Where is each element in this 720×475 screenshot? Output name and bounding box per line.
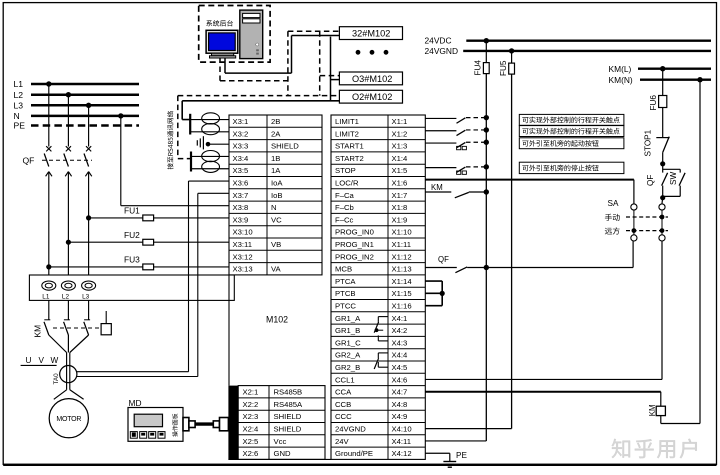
svg-text:SA: SA [608, 199, 619, 208]
svg-text:W: W [51, 356, 59, 365]
svg-text:GR1_A: GR1_A [335, 314, 361, 323]
selector switch SA [605, 199, 668, 241]
svg-text:1B: 1B [271, 154, 280, 163]
connector plug (MD side) [183, 418, 195, 431]
wire phase 2 CT to KM [67, 300, 69, 319]
motor M [49, 399, 88, 438]
svg-text:KM: KM [33, 325, 43, 338]
svg-text:X2:3: X2:3 [243, 412, 259, 421]
svg-text:SHIELD: SHIELD [274, 412, 302, 421]
dashed network wire to 32#M102 [288, 31, 340, 95]
24VGND vertical bus [511, 74, 513, 429]
contactor KM pole 2 [64, 320, 70, 335]
node L2 tap [66, 92, 71, 97]
rail 24VGND [425, 46, 712, 56]
svg-text:L3: L3 [82, 294, 90, 301]
svg-text:CCB: CCB [335, 400, 351, 409]
RS485 cable [195, 422, 213, 425]
svg-text:GND: GND [274, 449, 292, 458]
svg-text:STOP: STOP [335, 166, 356, 175]
svg-text:LIMIT2: LIMIT2 [335, 129, 359, 138]
svg-text:KM: KM [648, 404, 657, 416]
svg-text:X3:10: X3:10 [233, 228, 253, 237]
power bus PE (dashed) [14, 121, 140, 131]
svg-text:QF: QF [438, 255, 449, 264]
svg-text:F–Ca: F–Ca [335, 191, 355, 200]
svg-text:X3:7: X3:7 [233, 191, 249, 200]
svg-text:X1:5: X1:5 [392, 166, 408, 175]
node L1 tap [46, 81, 51, 86]
svg-text:PE: PE [456, 451, 467, 460]
power bus L1 [14, 79, 140, 89]
svg-text:F–Cb: F–Cb [335, 203, 354, 212]
svg-text:VC: VC [271, 215, 282, 224]
svg-text:GR1_B: GR1_B [335, 326, 360, 335]
svg-text:X1:6: X1:6 [392, 178, 408, 187]
svg-text:X3:3: X3:3 [233, 142, 249, 151]
svg-text:GR2_A: GR2_A [335, 351, 361, 360]
svg-text:M102: M102 [266, 315, 288, 325]
svg-text:O2#M102: O2#M102 [352, 92, 392, 102]
solid RS485 wire to O2#M102 [182, 101, 339, 120]
fuse FU1 and wire to X3:9 [86, 206, 229, 221]
M102 module outline [228, 275, 331, 460]
svg-text:X4:6: X4:6 [392, 375, 408, 384]
svg-text:QF: QF [23, 156, 35, 166]
shield connection (X3:3) [197, 136, 229, 149]
limit switch contact (X1:1 LIMIT1) [425, 115, 489, 123]
svg-text:X1:10: X1:10 [392, 228, 412, 237]
svg-text:X1:15: X1:15 [392, 289, 412, 298]
fuse FU2 and wire to X3:11 [66, 230, 229, 245]
svg-text:LIMIT1: LIMIT1 [335, 117, 359, 126]
svg-text:VB: VB [271, 240, 281, 249]
relay contact GR1 [374, 317, 388, 341]
X3 terminal table [229, 115, 322, 275]
svg-text:FU1: FU1 [124, 206, 140, 216]
dashed stub to O3#M102 [320, 75, 340, 77]
svg-text:X4:12: X4:12 [392, 449, 412, 458]
wire CCL1 to selector SA [425, 241, 662, 379]
svg-text:PTCC: PTCC [335, 301, 356, 310]
auxiliary contact QF (X1:13 MCB) [425, 241, 633, 273]
svg-text:PTCB: PTCB [335, 289, 356, 298]
label M102 [266, 315, 288, 325]
svg-text:O3#M102: O3#M102 [352, 74, 392, 84]
wire phase 3 QF to CT block [88, 172, 90, 275]
svg-text:2A: 2A [271, 129, 281, 138]
twisted pair channel 1 (X3:4/X3:5) [191, 151, 229, 173]
parallel contacts QF / SW [646, 164, 685, 204]
solid daisy-chain wire [331, 37, 340, 101]
system backend dashed box [199, 6, 270, 63]
connector plug (X2 side) [213, 418, 228, 431]
svg-text:MCB: MCB [335, 265, 352, 274]
stop button contact (X1:5 STOP) [425, 164, 489, 174]
svg-text:VA: VA [271, 265, 282, 274]
svg-text:CCA: CCA [335, 388, 352, 397]
svg-text:X1:3: X1:3 [392, 142, 408, 151]
svg-text:TA0: TA0 [53, 373, 60, 385]
svg-text:X4:9: X4:9 [392, 412, 408, 421]
svg-text:X2:4: X2:4 [243, 424, 260, 433]
wire LOC/R to selector SA [425, 180, 634, 204]
wire computer to 32#M102 (solid) [225, 36, 339, 74]
svg-text:X3:9: X3:9 [233, 215, 249, 224]
contactor KM pole 3 [84, 320, 90, 335]
svg-text:U: U [26, 356, 32, 365]
svg-text:X1:8: X1:8 [392, 203, 408, 212]
watermark 知乎用户 [612, 439, 697, 459]
start button contact (X1:3 START1) [425, 140, 489, 150]
svg-text:Vcc: Vcc [274, 437, 287, 446]
svg-text:X4:5: X4:5 [392, 363, 408, 372]
box O3#M102 [339, 72, 402, 85]
current transformer CT2 [61, 281, 75, 301]
svg-text:24VGND: 24VGND [425, 46, 459, 56]
X1/X4 terminal table [331, 115, 425, 459]
svg-text:PROG_IN2: PROG_IN2 [335, 252, 374, 261]
svg-text:N: N [271, 203, 277, 212]
svg-text:L3: L3 [14, 101, 24, 111]
svg-text:FU4: FU4 [474, 60, 483, 76]
svg-text:LOC/R: LOC/R [335, 178, 359, 187]
wire 24V (X4:11) [425, 440, 486, 442]
svg-text:START2: START2 [335, 154, 364, 163]
svg-text:X1:7: X1:7 [392, 191, 408, 200]
computer monitor [206, 30, 238, 58]
wire IoB (TA0 to X3:7) [77, 193, 229, 376]
svg-text:KM(L): KM(L) [609, 64, 632, 74]
circuit breaker QF pole 2 [64, 146, 72, 176]
node L3 tap [86, 103, 91, 108]
annotation box 2 [519, 126, 624, 137]
svg-text:X3:8: X3:8 [233, 203, 249, 212]
KM mechanical link (dashed) [53, 327, 101, 329]
svg-text:GR2_B: GR2_B [335, 363, 360, 372]
fuse FU6 [649, 69, 667, 111]
svg-text:X4:1: X4:1 [392, 314, 408, 323]
wire phase 1 drop to QF [48, 84, 50, 147]
svg-text:X2:6: X2:6 [243, 449, 259, 458]
svg-text:KM(N): KM(N) [609, 75, 633, 85]
svg-text:SW: SW [669, 172, 678, 185]
wire CCA to KM coil [425, 392, 661, 406]
svg-text:24V: 24V [335, 437, 350, 446]
box 32#M102 [339, 27, 402, 40]
rail KM(N) [609, 75, 712, 85]
contactor KM label [33, 325, 43, 338]
svg-text:X4:11: X4:11 [392, 437, 412, 446]
svg-text:X3:4: X3:4 [233, 154, 250, 163]
current transformer block [29, 275, 234, 300]
svg-text:X4:10: X4:10 [392, 424, 412, 433]
power bus N [14, 111, 140, 121]
svg-text:CCC: CCC [335, 412, 352, 421]
svg-text:1A: 1A [271, 166, 281, 175]
svg-text:GR1_C: GR1_C [335, 338, 361, 347]
svg-text:PE: PE [14, 121, 26, 131]
svg-text:RS485A: RS485A [274, 400, 304, 409]
fuse FU3 and wire to X3:13 [46, 255, 229, 270]
svg-text:24VGND: 24VGND [335, 424, 366, 433]
KM operator box [101, 311, 111, 335]
svg-text:CCL1: CCL1 [335, 375, 355, 384]
relay contact GR2 [374, 353, 388, 369]
svg-text:32#M102: 32#M102 [352, 29, 390, 39]
wire 24VGND (X4:10) [425, 428, 511, 430]
ellipsis dots [356, 50, 389, 55]
wire phase 2 QF to CT block [67, 172, 69, 275]
svg-text:X3:1: X3:1 [233, 117, 249, 126]
rail KM(L) [609, 64, 712, 74]
svg-text:FU2: FU2 [124, 230, 140, 240]
computer tower [240, 10, 263, 59]
svg-text:MOTOR: MOTOR [56, 416, 81, 423]
X2 terminal block connector bar [228, 386, 238, 460]
+24V vertical bus [485, 74, 487, 441]
svg-text:SHIELD: SHIELD [271, 142, 299, 151]
wire computer to network (dashed) [220, 58, 288, 81]
svg-text:X3:5: X3:5 [233, 166, 249, 175]
svg-text:L2: L2 [62, 294, 70, 301]
ground PE (X4:12) [425, 451, 467, 467]
MD operator panel [128, 398, 183, 442]
svg-text:24VDC: 24VDC [425, 36, 452, 46]
QF mechanical link (dashed) [42, 159, 92, 161]
svg-text:F–Cc: F–Cc [335, 215, 354, 224]
fuse FU4 [474, 41, 490, 76]
wire phase 3 drop to QF [88, 105, 90, 146]
box O2#M102 [339, 90, 402, 103]
wire N to X3:8 [121, 116, 229, 206]
svg-text:N: N [14, 111, 20, 121]
svg-text:SHIELD: SHIELD [274, 424, 302, 433]
svg-text:X1:9: X1:9 [392, 215, 408, 224]
svg-text:IoB: IoB [271, 191, 283, 200]
circuit breaker QF label [23, 156, 35, 166]
svg-text:PTCA: PTCA [335, 277, 356, 286]
fuse FU5 [499, 51, 515, 76]
svg-text:KM: KM [431, 183, 443, 192]
svg-text:L1: L1 [14, 79, 24, 89]
svg-text:X3:13: X3:13 [233, 265, 253, 274]
twisted pair channel 2 (X3:1/X3:2) [190, 113, 229, 135]
svg-text:START1: START1 [335, 142, 364, 151]
svg-text:2B: 2B [271, 117, 280, 126]
limit switch contact (X1:2 LIMIT2) [425, 127, 489, 135]
wire IoA (TA0 to X3:6) [77, 181, 230, 372]
svg-text:X3:11: X3:11 [233, 240, 253, 249]
annotation box 1 [519, 114, 624, 125]
PTC thermistor jumper (X1:14..X1:16) [425, 281, 445, 306]
svg-text:X3:12: X3:12 [233, 252, 253, 261]
current transformer CT3 [82, 281, 96, 301]
svg-text:X3:6: X3:6 [233, 178, 249, 187]
svg-text:X4:8: X4:8 [392, 400, 408, 409]
svg-text:FU5: FU5 [499, 60, 508, 76]
svg-text:X1:1: X1:1 [392, 117, 408, 126]
svg-text:L2: L2 [14, 90, 24, 100]
motor cable bundle [67, 353, 70, 390]
label 系统后台 [206, 20, 233, 26]
svg-text:Ground/PE: Ground/PE [335, 449, 373, 458]
svg-text:X1:2: X1:2 [392, 129, 408, 138]
svg-text:X2:5: X2:5 [243, 437, 259, 446]
dashed network riser [319, 31, 321, 95]
svg-text:X1:4: X1:4 [392, 154, 409, 163]
contactor KM pole 1 [44, 320, 50, 335]
svg-text:X3:2: X3:2 [233, 129, 249, 138]
svg-text:X1:11: X1:11 [392, 240, 412, 249]
svg-text:IoA: IoA [271, 178, 283, 187]
svg-text:PROG_IN0: PROG_IN0 [335, 228, 374, 237]
svg-text:X4:7: X4:7 [392, 388, 408, 397]
label U V W [21, 356, 59, 365]
X2 terminal table [238, 386, 325, 460]
dashed RS485 trunk wire [178, 96, 340, 159]
svg-text:X2:1: X2:1 [243, 388, 259, 397]
svg-text:X4:2: X4:2 [392, 326, 408, 335]
current transformer TA0 ring [53, 366, 77, 385]
svg-text:X1:13: X1:13 [392, 265, 412, 274]
svg-text:V: V [39, 356, 45, 365]
svg-text:PROG_IN1: PROG_IN1 [335, 240, 374, 249]
svg-text:FU6: FU6 [649, 95, 658, 111]
svg-text:STOP1: STOP1 [644, 129, 653, 156]
motor cable funnel (bottom) [54, 390, 84, 400]
wire phase 3 CT to KM [88, 300, 90, 319]
svg-text:X2:2: X2:2 [243, 400, 259, 409]
power bus L2 [14, 90, 140, 100]
motor cable funnel (top) [49, 335, 89, 353]
node N tap [118, 113, 123, 118]
wire phase 1 QF to CT block [48, 172, 50, 275]
power bus L3 [14, 101, 140, 111]
svg-text:MD: MD [129, 398, 142, 408]
current transformer CT1 [42, 281, 56, 301]
annotation box 3 [519, 138, 624, 149]
svg-text:X4:4: X4:4 [392, 351, 409, 360]
svg-text:RS485B: RS485B [274, 388, 303, 397]
svg-text:FU3: FU3 [124, 255, 140, 265]
wire phase 2 drop to QF [67, 95, 69, 147]
auxiliary contact KM (X1:7) [425, 183, 489, 198]
stop button STOP1 (NC) [644, 108, 670, 167]
contactor coil KM [648, 80, 700, 424]
svg-text:X1:14: X1:14 [392, 277, 413, 286]
circuit breaker QF pole 3 [84, 146, 92, 176]
svg-text:QF: QF [646, 175, 655, 186]
circuit breaker QF pole 1 [44, 146, 52, 176]
svg-text:X1:16: X1:16 [392, 301, 412, 310]
wire phase 1 CT to KM [48, 300, 50, 319]
svg-text:L1: L1 [42, 294, 50, 301]
rail 24VDC [425, 36, 712, 46]
label 接至RS485通讯网络 [167, 111, 173, 169]
svg-text:X4:3: X4:3 [392, 338, 408, 347]
svg-text:X1:12: X1:12 [392, 252, 412, 261]
annotation box 4 [519, 162, 624, 173]
